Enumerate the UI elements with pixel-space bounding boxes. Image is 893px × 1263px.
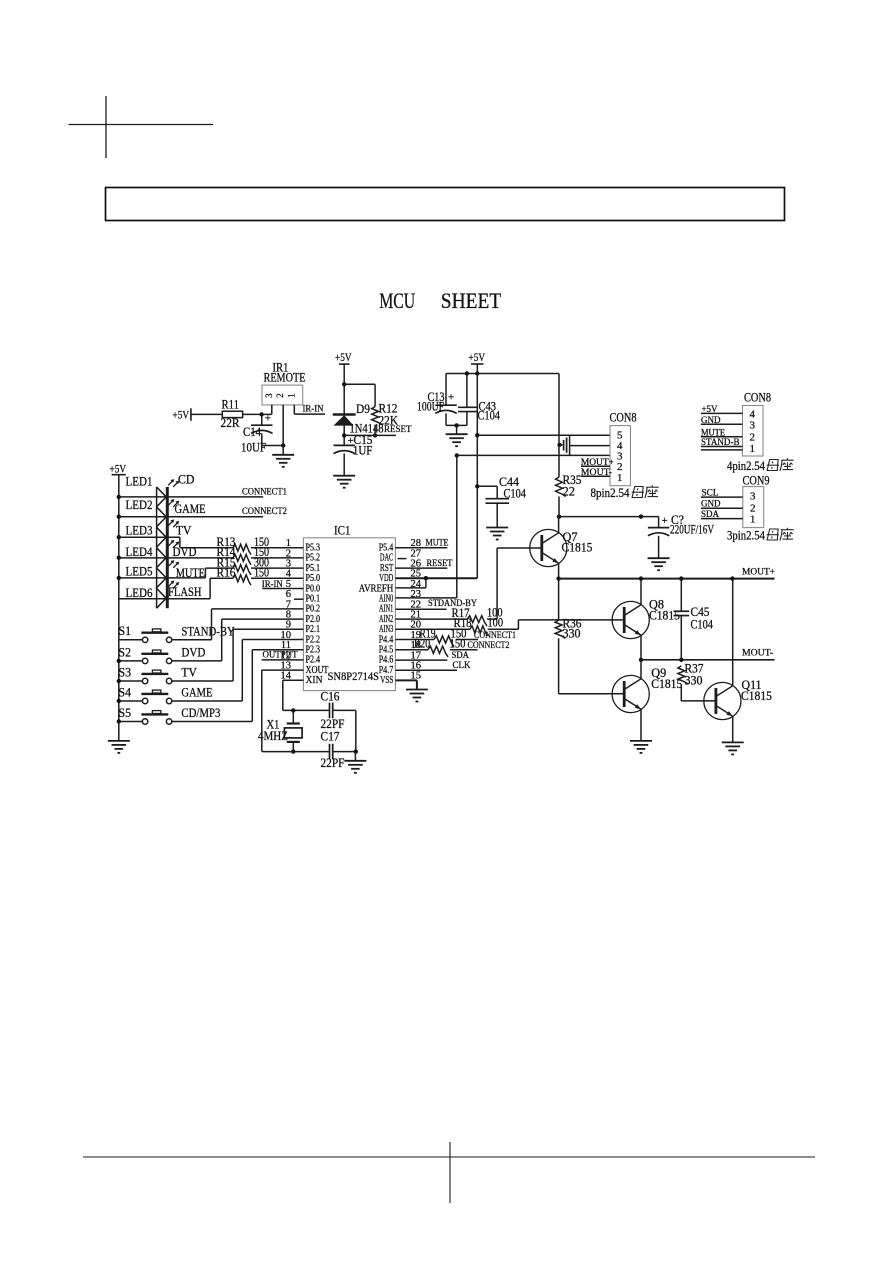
label 4pin2.54 socket	[727, 458, 794, 473]
junction IR1 gnd node	[281, 443, 285, 447]
wire to R12 branch	[344, 384, 375, 406]
net GND wire (CON9 pin2)	[701, 500, 743, 510]
junction X1 bottom	[291, 749, 295, 753]
connector CON8 4pin	[743, 391, 772, 457]
svg-text:MOUT-: MOUT-	[742, 649, 773, 659]
net GND wire (CON8-4 pin3)	[701, 416, 743, 426]
svg-text:3: 3	[750, 420, 756, 432]
svg-text:S2: S2	[119, 645, 132, 659]
svg-text:C16: C16	[321, 690, 340, 704]
svg-text:STAND-BY: STAND-BY	[181, 625, 234, 639]
wire AIN0 riser	[456, 455, 458, 598]
transistor Q9 C1815	[612, 666, 682, 713]
svg-text:TV: TV	[176, 524, 192, 538]
net MUTE wire (CON8-4 pin2)	[701, 428, 743, 438]
net MUTE wire pin28	[395, 538, 448, 548]
resistor R11 22R	[221, 398, 243, 431]
svg-text:22: 22	[563, 485, 576, 499]
net STAND-BY wire (CON8-4 pin1)	[701, 438, 743, 450]
wire rail to S4	[119, 700, 143, 702]
svg-text:MCU: MCU	[379, 288, 415, 313]
svg-text:100: 100	[488, 616, 504, 630]
svg-text:LED1: LED1	[126, 475, 153, 489]
pin27 stub	[398, 558, 407, 560]
wire Q9 emitter to gnd	[640, 709, 642, 741]
power flag +5V (LED rail)	[110, 464, 127, 476]
svg-text:SN8P2714S: SN8P2714S	[328, 669, 380, 683]
wire Q11 emitter to gnd	[732, 716, 734, 742]
svg-text:2: 2	[275, 393, 285, 398]
wire LED2 row / CONNECT2	[119, 507, 287, 517]
wire to CON8 pin5	[477, 434, 610, 436]
resistor R13 150	[180, 535, 304, 555]
net RESET wire	[344, 425, 411, 435]
LED anode rail	[156, 487, 158, 608]
power flag +5V (D9)	[335, 352, 352, 384]
capacitor C17 22PF	[262, 730, 356, 771]
net label IR-IN wire pin5	[262, 580, 304, 590]
svg-text:FLASH: FLASH	[168, 585, 202, 599]
wire VDD pin25	[395, 577, 477, 579]
pushbutton S4 GAME	[119, 685, 213, 703]
junction gnd stem	[454, 423, 458, 427]
junction MOUT+ C45	[679, 576, 683, 580]
diode D9 1N4148	[333, 384, 384, 445]
capacitor C13 100UF	[417, 374, 457, 426]
resistor R36 330	[555, 617, 581, 694]
junction MOUT+ Q7	[556, 576, 560, 580]
LED cathode rail	[166, 487, 169, 608]
net label MOUT+ wire (CON8 pin2)	[581, 458, 614, 468]
capacitor C16 22PF	[321, 690, 356, 732]
svg-text:CONNECT1: CONNECT1	[242, 487, 287, 497]
svg-text:+5V: +5V	[469, 352, 486, 364]
connector CON9 3pin	[743, 474, 770, 528]
ground (C44)	[486, 528, 508, 540]
net CLK wire pin16	[395, 661, 470, 671]
resistor R16 150	[210, 566, 303, 586]
junction LED rail dots	[117, 495, 121, 499]
resistor R37 330	[678, 662, 704, 701]
svg-text:IC1: IC1	[334, 524, 351, 538]
junction Q8 collector tap	[639, 514, 643, 518]
junction MOUT- R37	[679, 658, 683, 662]
resistor R15 300	[205, 555, 303, 574]
IR1 pin 3 stub	[271, 405, 273, 415]
svg-text:RESET: RESET	[427, 559, 453, 569]
pin9 wire from S3	[233, 628, 303, 630]
svg-text:CON9: CON9	[743, 474, 770, 488]
svg-text:330: 330	[563, 627, 581, 641]
wire R18 to Q8 base	[518, 620, 624, 629]
junction MOUT+ Q11	[730, 576, 734, 580]
svg-text:MUTE: MUTE	[426, 538, 449, 548]
junction rail/C43	[465, 371, 469, 375]
wire R37 to Q11 base	[681, 700, 716, 702]
IR receiver IR1 REMOTE	[262, 361, 306, 405]
net label MOUT- wire (CON8 pin1)	[581, 468, 612, 478]
pushbutton S2 DVD	[119, 645, 206, 663]
wire S2 to IC	[172, 619, 222, 661]
wire AVREFH pin24	[395, 578, 426, 588]
wire LED/button rail	[118, 475, 120, 741]
svg-text:8pin2.54: 8pin2.54	[591, 486, 631, 500]
svg-text:220UF/16V: 220UF/16V	[670, 523, 714, 537]
ground (Q11)	[722, 742, 744, 754]
ground (crystal)	[344, 752, 366, 773]
svg-text:LED2: LED2	[126, 498, 153, 512]
svg-text:4: 4	[750, 408, 756, 420]
IR1 pin 1 stub	[293, 405, 295, 414]
net RESET wire pin26	[395, 559, 452, 569]
svg-text:1: 1	[617, 472, 623, 484]
svg-text:CONNECT2: CONNECT2	[242, 507, 287, 517]
svg-text:1UF: 1UF	[353, 444, 373, 458]
junction CON8 pin3 net	[455, 453, 459, 457]
pin14 wire XIN	[283, 680, 304, 710]
svg-text:CD/MP3: CD/MP3	[181, 706, 220, 720]
pin7 wire from S1	[212, 608, 304, 610]
svg-text:CON8: CON8	[610, 411, 637, 425]
svg-text:22R: 22R	[221, 416, 241, 430]
svg-text:MUTE: MUTE	[176, 566, 205, 580]
wire Q8 collector	[640, 579, 642, 605]
svg-text:TV: TV	[181, 666, 197, 680]
junction C44 tap	[475, 484, 479, 488]
resistor R19 150	[395, 626, 478, 646]
svg-text:RESET: RESET	[384, 425, 412, 435]
capacitor C? 220UF/16V	[648, 513, 714, 558]
junction gnd (crystal)	[354, 749, 358, 753]
pin6 stub	[294, 598, 303, 600]
svg-text:SDA: SDA	[452, 651, 470, 661]
svg-text:C1815: C1815	[741, 689, 772, 703]
resistor R18 100	[395, 616, 518, 636]
svg-text:100UF: 100UF	[417, 400, 444, 414]
LED LED2	[126, 498, 180, 527]
IC IC1 SN8P2714S	[303, 524, 395, 691]
pin13 wire XOUT	[262, 670, 304, 752]
wire rail to S1	[119, 639, 143, 641]
svg-text:OUTPUT: OUTPUT	[263, 650, 298, 660]
wire C13/C43 to ground	[446, 424, 467, 426]
wire LED5 to R15	[119, 568, 206, 578]
LED LED4	[126, 540, 180, 568]
junction rail/+5V drop	[475, 371, 479, 375]
net MOUT- bus	[641, 649, 775, 660]
svg-text:2: 2	[750, 431, 756, 443]
svg-text:REMOTE: REMOTE	[264, 371, 306, 385]
svg-text:SHEET: SHEET	[441, 288, 502, 313]
power flag +5V (rail)	[469, 352, 486, 374]
junction pin24/25	[424, 576, 428, 580]
svg-text:GAME: GAME	[181, 686, 212, 700]
svg-text:CD: CD	[178, 473, 195, 487]
capacitor C44 C104	[477, 475, 526, 528]
junction Q7 collector node	[557, 515, 561, 519]
junction +5V/D9/R12	[342, 382, 346, 386]
svg-text:R16: R16	[217, 566, 236, 580]
svg-text:3: 3	[264, 393, 274, 398]
svg-text:C17: C17	[321, 730, 340, 744]
capacitor C15 1UF	[334, 433, 373, 476]
junction pin5 wire	[475, 433, 479, 437]
wire Q7 collector	[558, 517, 560, 533]
svg-text:S5: S5	[119, 706, 132, 720]
wire LED3 to R13	[119, 537, 180, 548]
wire AIN0 pin23	[395, 597, 456, 599]
power flag +5V (R11)	[173, 408, 191, 421]
IC1 pin name labels	[306, 543, 394, 687]
net SDA wire pin17	[395, 651, 469, 661]
label 3pin2.54 socket	[727, 528, 794, 543]
svg-text:VSS: VSS	[380, 675, 393, 686]
svg-text:C104: C104	[504, 487, 527, 501]
ground (C?)	[648, 558, 670, 570]
wire +5V drop to VDD	[476, 374, 478, 579]
ground (VSS)	[406, 690, 428, 702]
pushbutton S1 STAND-BY	[119, 624, 235, 642]
wire LED6 to R16	[119, 578, 210, 598]
connector CON8 8pin	[610, 411, 637, 486]
svg-text:4pin2.54: 4pin2.54	[727, 459, 766, 473]
capacitor C14 10UF	[241, 413, 273, 455]
pin8 wire from S2	[222, 618, 304, 620]
svg-text:22PF: 22PF	[321, 756, 345, 770]
svg-text:330: 330	[685, 674, 703, 688]
svg-text:D9: D9	[356, 402, 370, 416]
resistor R17 100	[395, 606, 502, 626]
registration cross top-left	[69, 96, 214, 158]
wire to CON8 pin3	[457, 454, 610, 456]
wire R17 to Q7 base	[497, 548, 542, 619]
junction MOUT+ Q8	[639, 576, 643, 580]
wire C14 to IR1 pin2 node	[262, 445, 283, 447]
svg-text:1: 1	[750, 443, 756, 455]
ground (IR1)	[272, 446, 294, 467]
svg-text:CONNECT2: CONNECT2	[468, 641, 510, 651]
wire rail to S2	[119, 660, 143, 662]
wire LED1 row / CONNECT1	[119, 487, 287, 497]
svg-text:DVD: DVD	[173, 545, 197, 559]
IR1 pin 2 stub	[282, 405, 284, 446]
wire Q11 collector	[732, 579, 734, 686]
svg-text:150: 150	[254, 566, 269, 580]
svg-text:3: 3	[750, 490, 756, 502]
LED LED5	[126, 560, 180, 588]
svg-text:+5V: +5V	[335, 352, 352, 364]
wire VSS pin15	[395, 680, 417, 689]
ground (buttons)	[108, 741, 130, 753]
wire S3 to IC	[172, 629, 233, 681]
wire Q7 emitter to R36	[558, 579, 560, 621]
wire S4 to IC	[172, 640, 243, 702]
net SCL wire (CON9 pin3)	[701, 488, 743, 498]
junction node C14 tap	[259, 412, 263, 416]
wire +5V column to R35	[558, 374, 560, 478]
svg-text:+: +	[265, 413, 271, 425]
pin11 wire from S5	[252, 649, 303, 651]
svg-text:DVD: DVD	[181, 646, 205, 660]
net label IR-IN wire	[294, 405, 325, 415]
net SDA wire (CON9 pin1)	[701, 510, 743, 520]
pushbutton S3 TV	[119, 665, 197, 683]
svg-text:XIN: XIN	[306, 675, 323, 686]
junction RESET net	[342, 433, 346, 437]
jack symbol	[557, 436, 569, 455]
ground (C13/C43)	[446, 425, 468, 446]
footer rule	[83, 1156, 815, 1158]
svg-text:CON8: CON8	[744, 391, 771, 405]
wire Q9 collector	[640, 660, 642, 679]
net +5V wire (CON8-4 pin4)	[701, 405, 743, 415]
footer tick	[449, 1142, 451, 1203]
wire collector node	[559, 516, 659, 518]
svg-text:CLK: CLK	[453, 661, 471, 671]
LED LED3	[126, 519, 180, 547]
junction X1 top	[291, 708, 295, 712]
wire C16/C17 right leg	[355, 710, 357, 751]
resistor R35 22	[556, 473, 582, 517]
svg-text:LED6: LED6	[126, 586, 153, 600]
transistor Q8 C1815	[612, 598, 680, 639]
svg-text:LED3: LED3	[126, 524, 153, 538]
wire +5V to R11	[191, 413, 222, 415]
svg-text:3pin2.54: 3pin2.54	[727, 529, 766, 543]
wire XIN node	[283, 709, 329, 711]
junction button rail dots	[117, 659, 121, 663]
svg-text:R11: R11	[222, 398, 240, 412]
transistor Q11 C1815	[704, 678, 772, 720]
wire jack to CON8 pin4	[570, 445, 610, 447]
pin10 wire from S4	[242, 639, 303, 641]
+5V rail wire	[446, 373, 559, 375]
svg-text:150: 150	[450, 637, 466, 651]
svg-text:LED5: LED5	[126, 565, 153, 579]
svg-text:IR-IN: IR-IN	[303, 405, 324, 415]
net MOUT+ bus	[559, 567, 775, 578]
ground (Q9)	[630, 741, 652, 753]
wire Q7 emitter to MOUT+	[558, 563, 560, 578]
svg-text:C104: C104	[691, 618, 714, 632]
svg-text:+5V: +5V	[110, 464, 127, 476]
wire Q8 emitter	[640, 635, 642, 659]
capacitor C45 C104	[674, 579, 714, 660]
transistor Q7 C1815	[530, 529, 593, 566]
label 8pin2.54 socket	[591, 485, 659, 500]
pushbutton S5 CD/MP3	[119, 706, 221, 724]
LED LED1	[126, 475, 180, 507]
svg-text:C1815: C1815	[562, 541, 593, 555]
svg-text:CONNECT1: CONNECT1	[474, 631, 516, 641]
svg-text:MOUT+: MOUT+	[742, 567, 775, 577]
svg-text:S1: S1	[119, 624, 132, 638]
net STDAND-BY wire pin22	[395, 599, 477, 609]
wire R11 to IR1 pin3	[243, 413, 272, 415]
svg-text:+5V: +5V	[173, 410, 190, 422]
junction MOUT- Q8	[639, 658, 643, 662]
resistor R20 150	[395, 637, 477, 657]
wire rail to S3	[119, 680, 143, 682]
title MCU SHEET	[379, 288, 502, 313]
LED LED6	[126, 581, 180, 609]
svg-text:LED4: LED4	[126, 545, 154, 559]
wire S5 to IC	[172, 650, 253, 722]
svg-text:+: +	[448, 392, 454, 404]
svg-text:C104: C104	[478, 409, 501, 423]
resistor R14 150	[119, 545, 304, 565]
resistor R12 22K	[372, 402, 398, 436]
wire S1 to IC	[172, 609, 212, 640]
svg-text:1: 1	[750, 513, 756, 525]
svg-text:+: +	[662, 515, 668, 527]
svg-text:S4: S4	[119, 685, 132, 699]
svg-text:GAME: GAME	[175, 502, 206, 516]
svg-text:S3: S3	[119, 665, 132, 679]
wire R36 to Q9 base	[559, 693, 625, 695]
svg-text:1: 1	[286, 393, 296, 398]
wire rail to S5	[119, 721, 143, 723]
svg-text:4MHZ: 4MHZ	[258, 729, 288, 743]
IC1 pin numbers	[281, 538, 422, 682]
ground (C15)	[333, 476, 355, 488]
empty header box	[106, 188, 785, 221]
capacitor C43 C104	[458, 374, 501, 426]
crystal X1 4MHZ	[258, 710, 302, 751]
svg-text:C14: C14	[243, 425, 262, 439]
net label OUTPUT wire pin12	[262, 650, 304, 660]
svg-text:R20: R20	[414, 637, 430, 651]
